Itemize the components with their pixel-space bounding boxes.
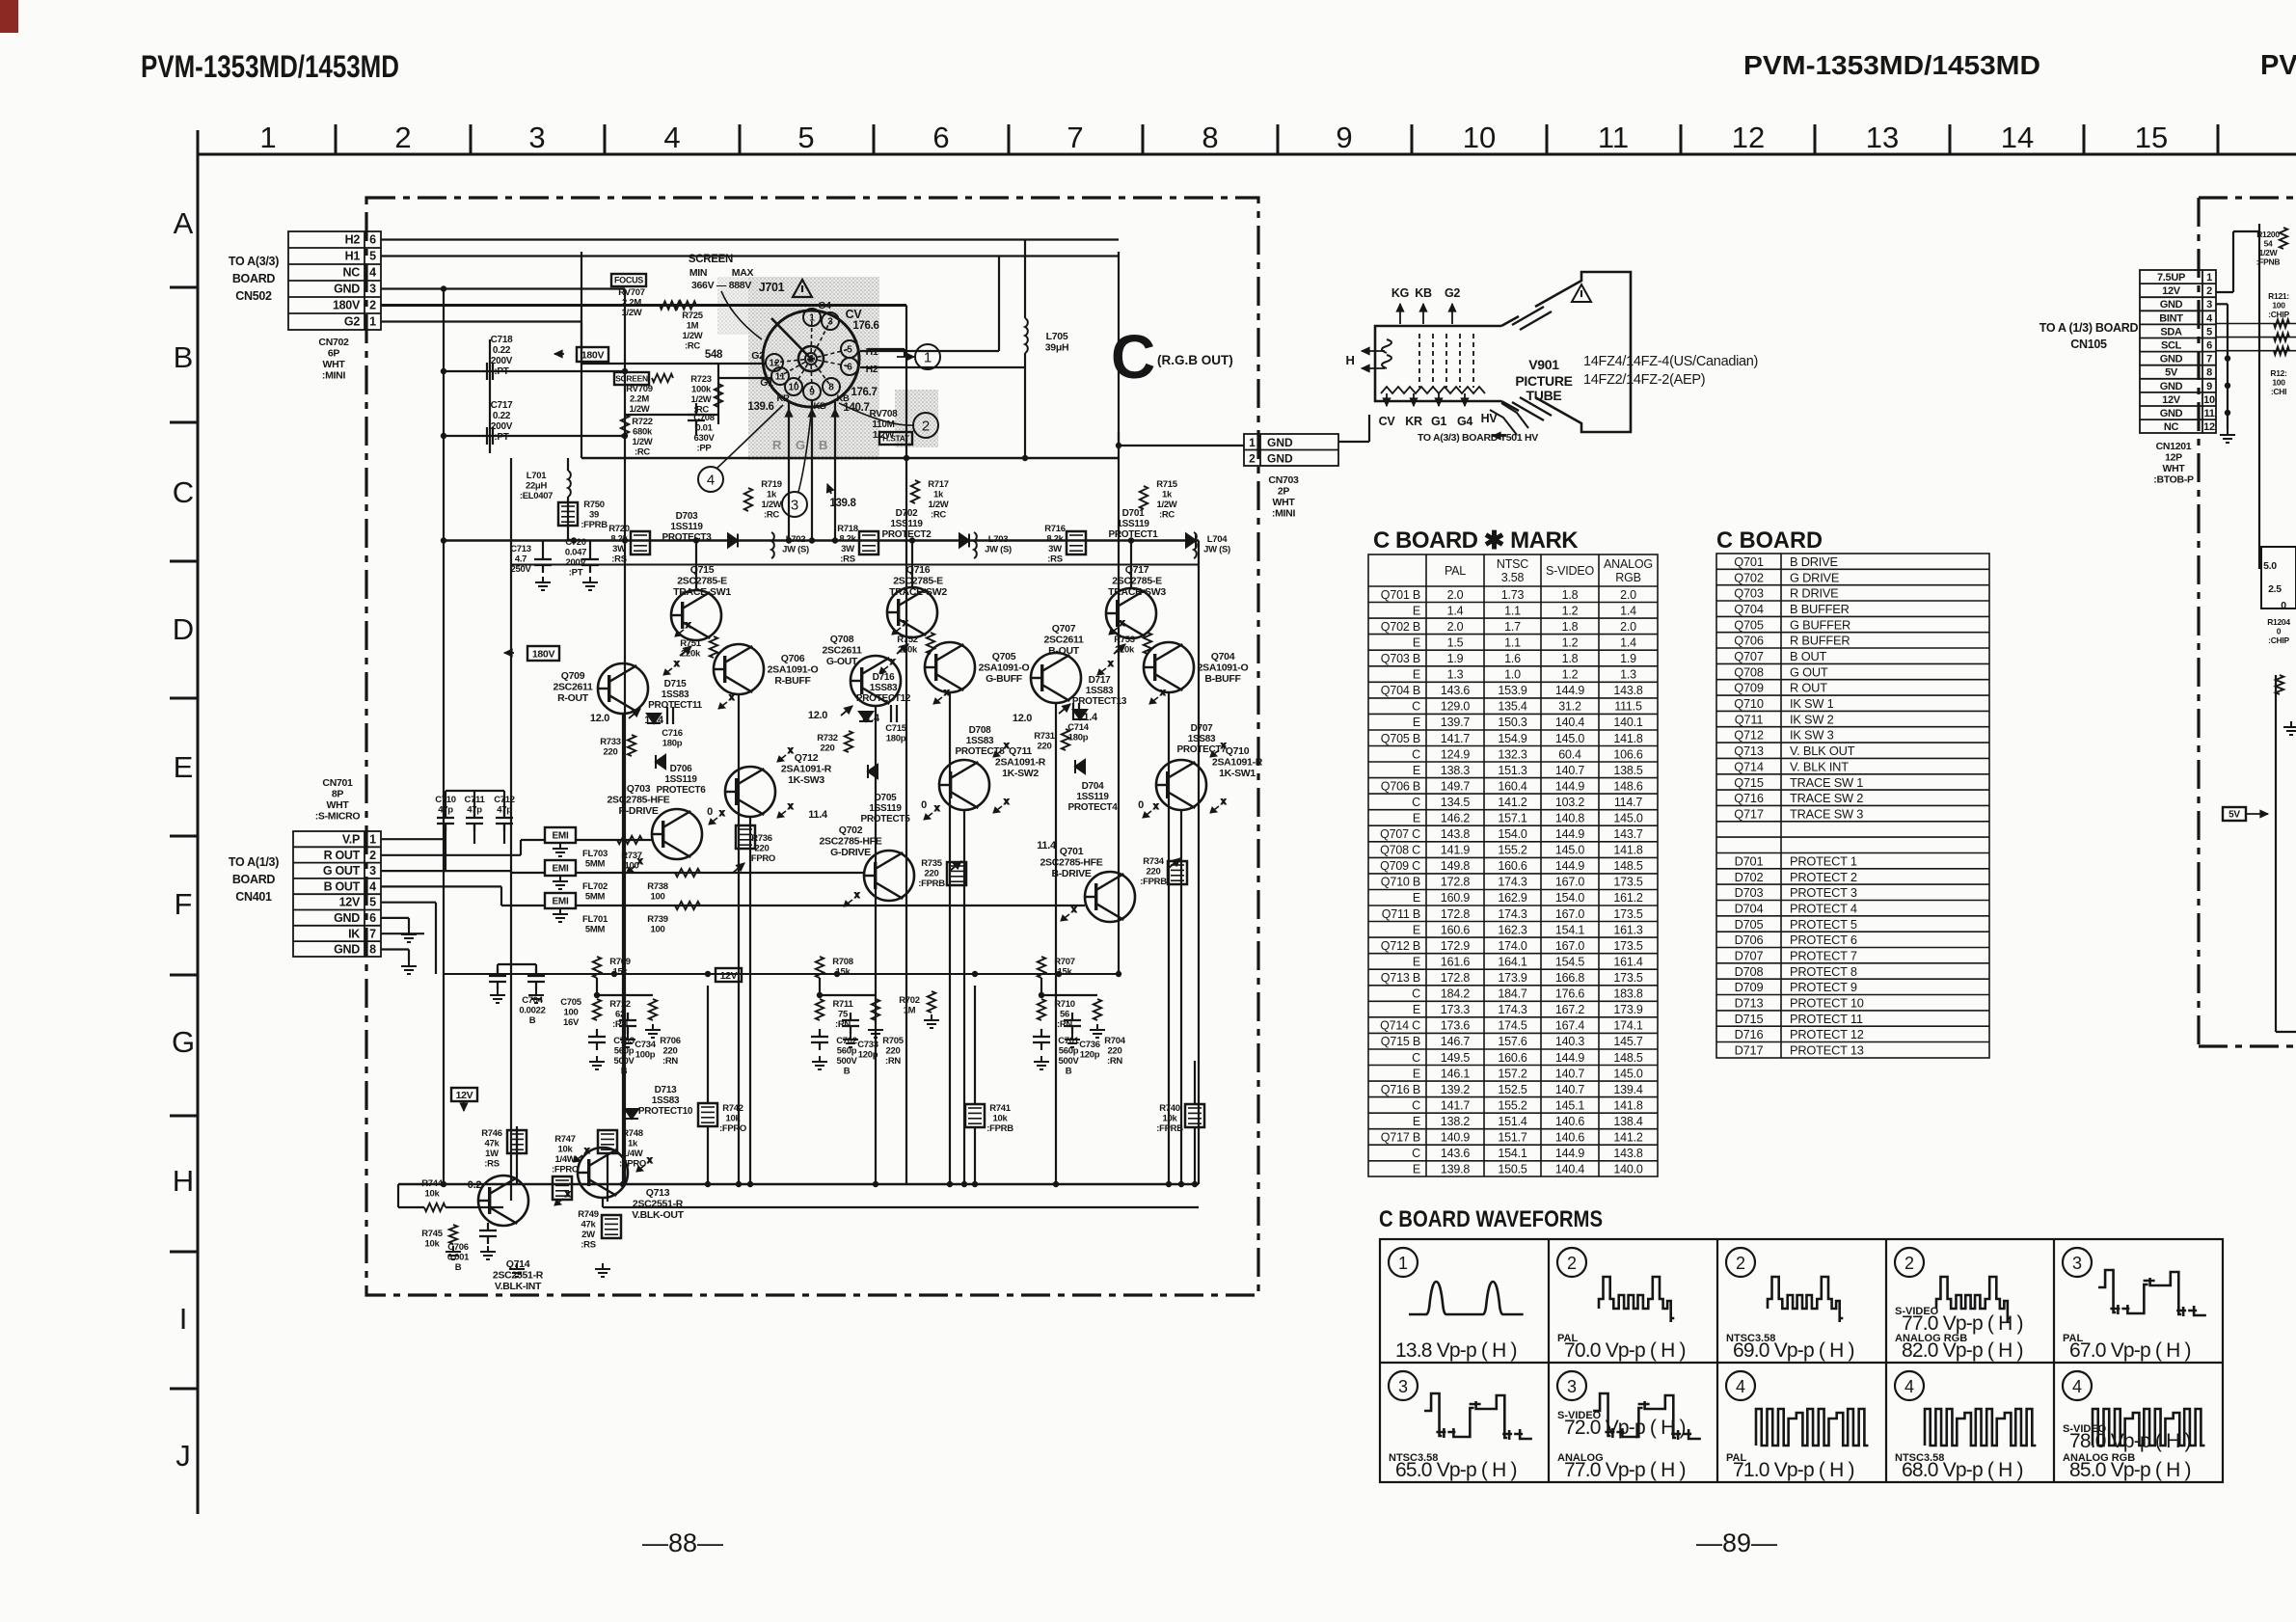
svg-text:R1200541/2W:FPNB: R1200541/2W:FPNB [2256,230,2281,267]
junction [1039,992,1044,998]
wire arrow [808,409,816,424]
wire arrow [1383,398,1391,406]
junction [1128,537,1134,543]
wire [589,541,591,553]
net label 180V box [577,347,608,362]
svg-text:Q709: Q709 [1734,681,1764,695]
svg-text:4: 4 [1904,1377,1914,1396]
svg-text:5V: 5V [2165,367,2178,379]
wire arrow [733,863,744,873]
svg-text:IK SW 3: IK SW 3 [1790,728,1834,743]
svg-text:R7188.2k3W:RS: R7188.2k3W:RS [837,524,858,565]
picture tube flare and screen outline [1501,272,1631,432]
wire arrow [1410,398,1418,406]
wire [381,917,409,919]
svg-text:Q708: Q708 [1734,664,1764,679]
svg-text:67.0 Vp-p ( H ): 67.0 Vp-p ( H ) [2069,1339,2191,1362]
transistor Q715 [671,590,721,640]
resistor R709 [593,957,601,978]
svg-text:146.2: 146.2 [1441,812,1471,825]
wire [576,839,652,841]
wire [974,986,976,1104]
svg-text:4: 4 [2206,312,2213,324]
wire [1194,1061,1196,1104]
HV lead [1490,403,1528,435]
svg-text:145.0: 145.0 [1555,732,1585,745]
wire arrow [680,646,691,656]
svg-text:PROTECT 3: PROTECT 3 [1790,885,1857,900]
svg-text:x: x [854,890,860,901]
capacitor C710 [437,810,454,831]
measurement arrow [574,1146,590,1162]
svg-text:SCL: SCL [2161,340,2182,352]
svg-text:Q7152SC2785-ETRACE-SW1: Q7152SC2785-ETRACE-SW1 [673,564,731,598]
wire arrow [1114,644,1125,654]
wire arrow [629,709,640,718]
junction [961,1181,967,1187]
svg-text:D704: D704 [1735,902,1764,916]
inductor L703 [974,532,977,558]
svg-text:65.0 Vp-p ( H ): 65.0 Vp-p ( H ) [1395,1459,1517,1481]
svg-text:167.0: 167.0 [1555,876,1585,889]
transistor Q713 [578,1148,628,1198]
svg-text:1: 1 [2206,272,2212,284]
svg-text:1.2: 1.2 [1562,604,1579,617]
junction [622,433,628,439]
svg-text:140.7: 140.7 [1555,764,1585,777]
svg-text:FOCUS: FOCUS [614,276,643,285]
svg-text:EMI: EMI [553,897,569,907]
svg-text:145.1: 145.1 [1555,1098,1585,1112]
svg-text:1.4: 1.4 [1447,604,1464,617]
svg-text:139.6: 139.6 [747,401,773,413]
capacitor C703 [588,1029,606,1050]
resistor chip resistor [2274,319,2289,327]
capacitor C736 [1064,1013,1081,1034]
svg-text:TUBE: TUBE [1526,388,1562,403]
svg-text:144.9: 144.9 [1555,859,1585,873]
CRT socket key line [771,318,811,359]
svg-text:12V: 12V [720,970,738,982]
svg-text:G OUT: G OUT [1790,664,1828,679]
svg-text:R733220: R733220 [600,737,621,758]
svg-text:R74110k:FPRB: R74110k:FPRB [986,1103,1013,1134]
wire arrow [460,1101,468,1111]
wire [905,306,907,1185]
svg-text:PROTECT 1: PROTECT 1 [1790,854,1857,869]
resistor R722 [621,415,629,438]
capacitor C702 [811,1029,828,1050]
svg-text:10: 10 [1463,121,1496,154]
svg-text:CN7026PWHT:MINI: CN7026PWHT:MINI [318,337,349,382]
wire [489,339,491,453]
svg-text:149.5: 149.5 [1441,1051,1471,1065]
resistor R712 [593,999,601,1020]
svg-text:Q705: Q705 [1734,617,1764,632]
capacitor C701 [1033,1029,1050,1050]
svg-text:R74710k1/4W:FPRO: R74710k1/4W:FPRO [552,1134,579,1176]
svg-text:Q712 B: Q712 B [1381,939,1420,953]
svg-text:R7151k1/2W:RC: R7151k1/2W:RC [1156,479,1178,521]
svg-text:7.5UP: 7.5UP [2157,272,2185,284]
svg-text:KB: KB [1415,286,1432,300]
wire [567,458,569,471]
measurement arrow [554,1189,571,1205]
svg-text:PROTECT 10: PROTECT 10 [1790,996,1864,1011]
svg-text:1.8: 1.8 [1562,588,1579,602]
svg-text:SCREEN: SCREEN [689,254,733,265]
inductor L701 [568,471,571,497]
wire [819,978,821,995]
svg-text:NC: NC [2164,421,2179,433]
svg-text:366V — 888V: 366V — 888V [691,280,751,291]
svg-text:(R.G.B OUT): (R.G.B OUT) [1157,353,1233,367]
svg-text:D7041SS119PROTECT4: D7041SS119PROTECT4 [1068,781,1119,813]
svg-text:C702560p500VB: C702560p500VB [836,1036,857,1077]
svg-text:D7051SS119PROTECT5: D7051SS119PROTECT5 [861,793,911,825]
svg-text:11.4: 11.4 [1037,840,1057,852]
junction [1192,1181,1198,1187]
wire [622,714,624,1184]
svg-text:C703560p500VB: C703560p500VB [613,1036,635,1077]
resistor R717 [911,480,919,503]
wire [904,349,905,357]
transistor Q704 [1144,642,1194,692]
resistor R716 [1067,531,1086,554]
scanner artifact top-left corner [0,0,18,33]
top ruler numbers [259,121,2168,154]
wire [381,238,1119,240]
svg-text:Q707: Q707 [1734,649,1764,663]
svg-text:1.3: 1.3 [1447,668,1464,682]
svg-text:138.3: 138.3 [1441,764,1471,777]
svg-text:PROTECT 5: PROTECT 5 [1790,917,1857,932]
resistor R739 [675,902,700,909]
svg-text:174.1: 174.1 [1613,1019,1643,1033]
svg-text:9: 9 [1336,121,1352,154]
svg-text:2: 2 [394,121,411,154]
svg-text:PROTECT 6: PROTECT 6 [1790,933,1857,947]
wire [834,400,836,540]
svg-text:143.8: 143.8 [1613,684,1643,697]
svg-text:143.8: 143.8 [1441,827,1471,841]
resistor RV707 [660,301,681,309]
wire [445,824,446,844]
ground [553,843,568,856]
wire arrow [1461,398,1469,406]
wire [1438,393,1440,406]
svg-text:144.9: 144.9 [1555,779,1585,793]
svg-text:148.6: 148.6 [1613,779,1643,793]
right board dash-dot border bottom [2199,1044,2296,1047]
svg-text:C7060.001B: C7060.001B [447,1242,470,1273]
svg-text:x: x [1221,741,1227,751]
svg-text:124.9: 124.9 [1441,747,1471,761]
wire [811,400,813,540]
svg-text:140.1: 140.1 [1613,716,1643,729]
svg-text:10: 10 [788,383,799,393]
svg-text:184.7: 184.7 [1498,987,1527,1001]
svg-text:1.5: 1.5 [1447,635,1464,649]
svg-text:103.2: 103.2 [1555,796,1585,809]
junction [2225,410,2230,416]
capacitor C720 [581,552,599,573]
svg-text:1: 1 [369,833,376,847]
svg-text:4: 4 [663,121,680,154]
svg-text:RV7092.2M1/2W: RV7092.2M1/2W [626,384,652,415]
svg-text:143.7: 143.7 [1613,827,1643,841]
svg-text:x: x [565,1189,571,1200]
junction [947,1181,953,1187]
measurement arrow [675,620,691,636]
junction [736,1181,742,1187]
svg-text:C70510016V: C70510016V [560,997,582,1028]
junction [705,971,711,977]
svg-text:148.5: 148.5 [1613,1051,1643,1065]
wire [511,564,1199,566]
svg-text:V. BLK INT: V. BLK INT [1790,759,1849,773]
ground [589,1056,605,1069]
svg-text:D716: D716 [1735,1027,1764,1041]
svg-text:x: x [903,618,908,629]
svg-text:FL7015MM: FL7015MM [582,914,608,935]
svg-text:155.2: 155.2 [1498,844,1527,857]
wire [445,791,446,818]
svg-text:154.9: 154.9 [1498,732,1527,745]
svg-text:B OUT: B OUT [324,879,361,893]
ground [446,1246,461,1259]
svg-text:CV: CV [1379,415,1396,428]
resistor R748 [598,1130,617,1153]
wire arrow [950,861,961,871]
svg-text:R722680k1/2W:RC: R722680k1/2W:RC [632,417,653,458]
svg-text:E: E [1413,604,1420,617]
resistor R738 [675,869,700,877]
svg-text:R74647k1W:RS: R74647k1W:RS [481,1128,502,1170]
wire [963,810,965,1184]
top ruler line [198,153,2296,156]
svg-text:4: 4 [707,472,715,488]
capacitor C708 [688,407,705,428]
resistor R742 [698,1103,717,1126]
svg-text:0: 0 [921,799,927,811]
wire [381,838,444,840]
svg-text:2: 2 [1736,1254,1745,1273]
wire [1168,692,1170,1184]
measurement arrow [636,1155,653,1172]
svg-text:145.0: 145.0 [1613,1067,1643,1080]
table C BOARD MARK header [1445,557,1653,584]
junction [909,537,915,543]
wire [381,255,1119,257]
svg-text:L703JW (S): L703JW (S) [985,534,1012,555]
svg-text:E: E [1413,635,1420,649]
ground [645,1024,661,1038]
waveform cell 8 value labels [1726,1452,1854,1481]
svg-text:173.5: 173.5 [1613,876,1643,889]
svg-text:12V: 12V [2162,394,2181,406]
svg-text:D7021SS119PROTECT2: D7021SS119PROTECT2 [882,508,932,540]
svg-text:140.4: 140.4 [1555,716,1585,729]
junction [817,992,823,998]
svg-text:D701: D701 [1735,854,1764,869]
svg-text:150.5: 150.5 [1498,1163,1527,1176]
svg-text:IK: IK [348,927,360,940]
svg-text:L704JW (S): L704JW (S) [1203,534,1230,555]
resistor R733 [628,735,635,756]
diode D703 [728,534,738,548]
wire [381,902,436,904]
junction [834,971,840,977]
svg-text:106.6: 106.6 [1613,747,1643,761]
wire [1338,441,1369,443]
transistor Q703 [652,809,702,859]
left ruler ticks [170,287,198,1389]
svg-text:77.0 Vp-p ( H ): 77.0 Vp-p ( H ) [1564,1459,1686,1481]
wire [2216,350,2296,352]
diode D701 [1186,534,1196,548]
svg-text:C7200.047200V:PT: C7200.047200V:PT [565,537,587,579]
measurement arrow [777,745,794,762]
wire [510,458,512,1201]
svg-text:C7134.7250V: C7134.7250V [510,544,531,575]
svg-text:31.2: 31.2 [1558,700,1581,714]
svg-text:144.9: 144.9 [1555,827,1585,841]
waveform cell 4 value labels [1895,1306,2023,1362]
svg-text:144.9: 144.9 [1555,1051,1585,1065]
transistor Q707 [1031,653,1081,703]
svg-text:161.2: 161.2 [1613,891,1643,905]
wire [2216,303,2228,305]
circled ref 3 [782,492,807,517]
junction [622,368,628,374]
svg-text:D7131SS83PROTECT10: D7131SS83PROTECT10 [638,1085,693,1117]
svg-text:12.0: 12.0 [590,713,609,724]
svg-text:14FZ2/14FZ-2(AEP): 14FZ2/14FZ-2(AEP) [1583,372,1705,388]
junction [972,971,978,977]
measurement arrow [1061,905,1077,921]
svg-text:PROTECT 13: PROTECT 13 [1790,1043,1864,1058]
svg-text:3: 3 [369,864,376,878]
capacitor C734 [619,1013,636,1034]
svg-text:167.4: 167.4 [1555,1019,1585,1033]
svg-text:D705: D705 [1735,917,1764,932]
ground [2283,721,2296,735]
picture tube heater symbol [1382,339,1391,368]
svg-text:L70122μH:EL0407: L70122μH:EL0407 [520,471,553,501]
svg-text:139.7: 139.7 [1441,716,1471,729]
svg-text:FL7025MM: FL7025MM [582,881,608,903]
svg-text:548: 548 [705,349,723,361]
waveform cell 10 trace [2093,1409,2204,1446]
wire [707,1126,709,1184]
svg-text:GND: GND [2160,299,2183,311]
svg-text:C734100p: C734100p [635,1040,657,1061]
waveform cell 5 value labels [2063,1333,2191,1362]
wire [1118,458,1120,974]
svg-text:R7168.2k3W:RS: R7168.2k3W:RS [1044,524,1066,565]
svg-text:145.0: 145.0 [1555,844,1585,857]
wire [1130,541,1132,589]
svg-text:SDA: SDA [2160,326,2182,338]
svg-text:D708: D708 [1735,964,1764,979]
svg-text:114.7: 114.7 [1614,796,1643,809]
svg-text:162.9: 162.9 [1498,891,1527,905]
svg-text:139.2: 139.2 [1441,1083,1471,1096]
svg-text:Q711 B: Q711 B [1382,907,1420,921]
junction [1056,971,1062,977]
wire [581,457,1119,460]
wire [998,257,1000,352]
wire [381,948,409,950]
wire [498,963,536,965]
svg-text:D715: D715 [1735,1012,1764,1026]
svg-text:V901: V901 [1528,357,1559,372]
svg-text:183.8: 183.8 [1613,987,1643,1001]
svg-text:G2: G2 [751,350,765,362]
wire [2258,224,2260,569]
svg-text:154.1: 154.1 [1555,923,1585,936]
wire [381,933,424,934]
wire [2232,231,2234,292]
svg-text:C: C [1412,1098,1420,1112]
svg-text:A: A [174,206,194,240]
resistor R708 [816,957,824,978]
junction [1178,1181,1184,1187]
measurement arrow [663,659,680,675]
resistor RV709 [652,374,673,382]
wire [511,872,545,874]
wire [1386,393,1388,406]
wire [2233,230,2259,232]
svg-text:4: 4 [369,266,376,280]
svg-text:Q7092SC2611R-OUT: Q7092SC2611R-OUT [553,670,593,704]
junction [747,1181,753,1187]
wire [535,964,537,976]
junction [1022,455,1028,461]
net label 12V box a [716,968,742,982]
capacitor C717 [487,427,493,445]
svg-text:7: 7 [369,927,376,940]
svg-text:12: 12 [769,359,780,369]
svg-text:173.6: 173.6 [1441,1019,1471,1033]
connector CN401 [293,831,381,957]
svg-text:1: 1 [1249,436,1256,449]
right board dash-dot border top [2199,196,2296,199]
svg-text:R704220:RN: R704220:RN [1104,1036,1126,1067]
wire [695,403,697,415]
junction [832,537,838,543]
svg-text:Q710 B: Q710 B [1381,876,1420,889]
svg-text:Q717: Q717 [1734,806,1764,821]
svg-text:C733120p: C733120p [857,1040,878,1061]
waveform cell 5 circled ref [2063,1248,2092,1277]
wire [381,885,501,887]
svg-text:3: 3 [1398,1377,1408,1396]
resistor R753 [1144,633,1151,654]
svg-text:161.3: 161.3 [1613,923,1643,936]
capacitor C711 [466,810,483,831]
svg-text:2.0: 2.0 [1447,588,1464,602]
measurement arrow [844,890,860,906]
resistor chip resistor [2274,333,2289,340]
wire arrow [1448,304,1456,324]
svg-text:R7481k1/4W:FPRO: R7481k1/4W:FPRO [619,1128,646,1170]
H.STAT label box [879,432,912,445]
svg-text:KR: KR [1405,415,1422,428]
svg-text:x: x [637,856,643,867]
svg-text:180V: 180V [333,299,361,312]
